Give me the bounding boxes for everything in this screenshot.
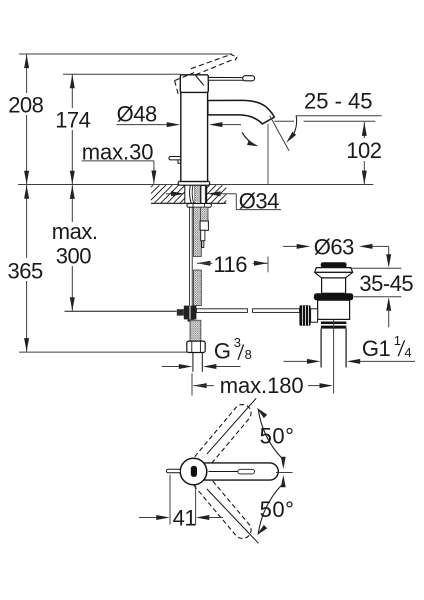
label 50deg upper	[260, 424, 295, 449]
dim G3/8 arrows	[162, 364, 241, 369]
angle line +50	[207, 398, 256, 454]
dim max180 extension left	[191, 373, 193, 395]
second hose fitting	[200, 221, 208, 230]
raised lever (dashed) upper edge	[191, 54, 231, 68]
counter hatch right	[207, 185, 227, 203]
dim dia34 arrows	[166, 191, 236, 196]
svg-text:35-45: 35-45	[359, 271, 413, 296]
tailpipe joint rings	[321, 322, 346, 329]
counter hatch left	[151, 185, 185, 203]
dim max30 text	[82, 139, 154, 164]
dim 365 text	[8, 258, 43, 283]
svg-text:300: 300	[56, 243, 91, 268]
rotated lever +50 (dashed)	[189, 401, 254, 474]
dim 25-45 underline	[296, 115, 382, 117]
lever slot detail	[209, 469, 255, 474]
dim 174 text	[55, 107, 90, 132]
dim max300 line	[70, 185, 75, 311]
projection line segment at 116 dimension	[267, 257, 269, 273]
spout-top reference line	[63, 73, 181, 75]
dim max180 line	[193, 383, 333, 388]
rod coupler bottom stub	[188, 319, 194, 321]
svg-text:365: 365	[8, 258, 43, 283]
dim max300 text	[52, 219, 98, 268]
raised lever (dashed) knob tip	[231, 54, 237, 62]
svg-text:Ø63: Ø63	[314, 235, 354, 260]
pop-up rod guide tab on body	[169, 157, 181, 164]
counter bottom line	[151, 202, 226, 204]
svg-text:max.: max.	[52, 219, 98, 244]
dim 25-45 leader	[286, 116, 296, 143]
rod coupler block	[184, 306, 197, 320]
pop-up rod to drain (segment 1)	[196, 309, 247, 313]
hose end fitting nut	[187, 341, 205, 352]
dim max30 leader	[82, 161, 157, 184]
knob connector	[311, 309, 318, 322]
svg-text:41: 41	[173, 506, 197, 531]
drain body	[318, 300, 350, 319]
svg-text:G: G	[214, 338, 231, 363]
counter hole left edge	[184, 185, 186, 204]
svg-text:max.180: max.180	[220, 373, 304, 398]
lever joint line in cap	[196, 76, 204, 86]
arc +50	[257, 408, 286, 470]
dim 35-45 vertical top	[382, 246, 391, 267]
svg-text:Ø48: Ø48	[117, 102, 157, 127]
dim 35-45 vertical bottom	[386, 297, 391, 327]
faucet body	[181, 92, 208, 181]
second hose tube	[201, 230, 205, 247]
supply hose braid upper	[193, 207, 201, 256]
dim 41 ext right	[195, 485, 197, 525]
label G1-1/4	[362, 333, 412, 361]
dim 102 text	[346, 138, 381, 163]
pop-up rod to drain (segment 2)	[253, 309, 300, 313]
dim 41 ext left	[169, 475, 171, 525]
supply hose braid lower	[190, 320, 201, 341]
lever knob	[243, 76, 255, 81]
second hose braid	[201, 207, 208, 221]
outlet level reference line	[274, 120, 375, 122]
top reference line (lever max height)	[19, 53, 232, 55]
svg-text:8: 8	[245, 347, 252, 362]
rod coupler left stub	[177, 309, 184, 315]
pop-up rod horizontal (left part)	[65, 310, 177, 312]
svg-text:208: 208	[8, 92, 43, 117]
dim 174 line	[70, 74, 75, 184]
angle line -50	[207, 489, 259, 543]
ref line locknut top	[354, 296, 401, 298]
aerator stream direction line	[270, 116, 289, 151]
spout	[208, 100, 274, 124]
svg-text:Ø34: Ø34	[239, 189, 279, 214]
dim G1-1/4 arrows	[284, 359, 416, 364]
svg-text:102: 102	[346, 138, 381, 163]
rotated lever -50 (dashed)	[189, 469, 254, 542]
ref line flange underside	[350, 267, 402, 269]
G3/8 thread end	[193, 353, 202, 372]
dim dia63 text	[314, 235, 354, 260]
dim max180 text	[220, 373, 304, 398]
drain centerline	[333, 319, 335, 393]
dim 35-45 text	[359, 271, 413, 296]
lever rod	[208, 77, 243, 80]
dim 41 text	[173, 506, 197, 531]
lever axis stub right	[276, 472, 293, 474]
dim dia63 arrows	[283, 244, 382, 249]
drain flange lip	[315, 268, 353, 273]
svg-text:3: 3	[234, 335, 241, 350]
arc -50	[257, 475, 286, 536]
dim 25-45 text	[304, 89, 373, 114]
spout outlet projection line	[267, 124, 269, 184]
knurled knob	[299, 305, 310, 325]
svg-text:1: 1	[394, 333, 401, 348]
svg-text:4: 4	[404, 345, 411, 360]
dim dia48 arrows	[117, 122, 242, 127]
lever stub left	[166, 469, 180, 473]
supply hose braid middle	[193, 270, 201, 306]
pop-up plug band	[321, 262, 347, 267]
faucet body (top view)	[180, 458, 207, 485]
dim 208 line	[24, 54, 29, 184]
raised cap (dashed) top edge	[175, 73, 195, 81]
tailpipe G1 1/4	[321, 329, 346, 368]
faucet base flange	[178, 181, 210, 185]
lever (top view)	[197, 463, 278, 480]
drain locknut band	[314, 293, 353, 300]
cartridge cap	[180, 75, 208, 93]
raised cap (dashed) left edge	[175, 81, 179, 96]
svg-text:50°: 50°	[260, 424, 295, 449]
hoses in shank hole	[190, 185, 206, 203]
svg-text:50°: 50°	[260, 497, 295, 522]
dim 116 arrows	[197, 261, 268, 266]
mounting nut	[187, 204, 212, 208]
dim dia48 text	[117, 102, 157, 127]
dim 365 line	[24, 185, 29, 352]
counter hole right edge	[206, 185, 208, 204]
label 50deg lower	[260, 497, 295, 522]
svg-text:G1: G1	[362, 336, 391, 361]
dim dia34 text	[239, 189, 279, 214]
dim dia34 leader	[236, 194, 281, 210]
hose-end reference line	[19, 351, 187, 353]
dim 102 line	[362, 122, 367, 184]
dim 208 text	[8, 92, 43, 117]
dim 116 text	[213, 252, 247, 277]
counter top line	[18, 184, 373, 186]
svg-text:116: 116	[213, 252, 247, 277]
label G3/8	[214, 335, 252, 363]
svg-text:25 - 45: 25 - 45	[304, 89, 373, 114]
drain flange shoulders	[315, 272, 353, 278]
pop-up rod (vertical)	[190, 207, 193, 306]
lever base (top view)	[191, 466, 197, 477]
drain flange neck	[322, 278, 346, 293]
raised lever (dashed) lower edge	[196, 59, 234, 74]
dim 41 arrows	[139, 515, 223, 520]
swivel arrow under spout	[242, 133, 258, 147]
svg-text:174: 174	[55, 107, 90, 132]
